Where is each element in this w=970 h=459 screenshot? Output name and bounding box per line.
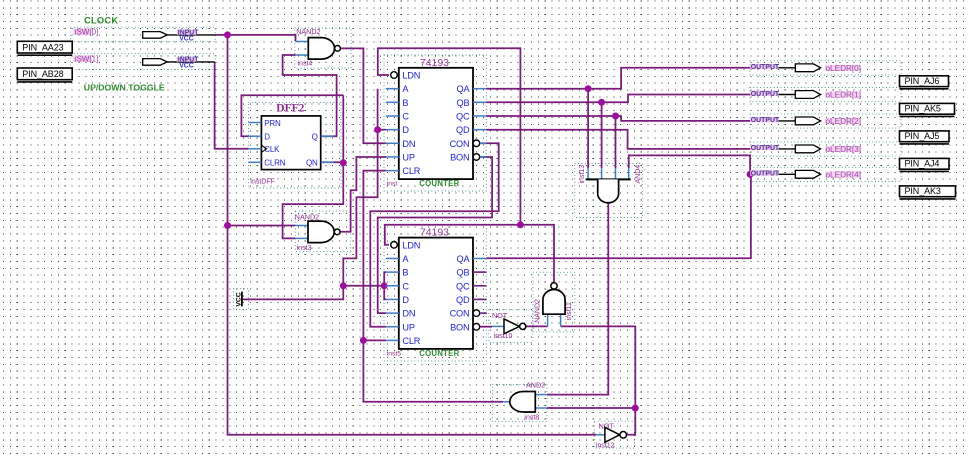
wire counter inst QA to output oLEDR[0] — [486, 68, 750, 89]
svg-text:DN: DN — [402, 139, 415, 149]
svg-text:oLEDR[4]: oLEDR[4] — [826, 170, 862, 179]
output pin oLEDR[3] — [750, 145, 861, 154]
comment text UP/DOWN TOGGLE — [84, 83, 165, 93]
svg-text:DFF2: DFF2 — [276, 103, 304, 115]
svg-text:PIN_AB28: PIN_AB28 — [22, 69, 63, 79]
wire counter inst QC to output oLEDR[2] — [486, 116, 750, 121]
svg-text:BON: BON — [450, 152, 469, 162]
junction LDN net — [517, 221, 524, 228]
wire VCC net: counter inst A/D down to VCC symbol — [242, 89, 378, 300]
wire CLOCK net: vertical trunk down left side to NOT inst12 input — [228, 35, 597, 435]
svg-text:COUNTER: COUNTER — [419, 349, 459, 358]
wire NAND2 inst3 output to counter inst UP — [338, 157, 386, 232]
svg-text:OUTPUT: OUTPUT — [751, 64, 780, 71]
junction VCC net at counter inst5 C stub — [381, 282, 388, 289]
svg-text:NOT: NOT — [492, 311, 508, 320]
counter 74193 inst — [386, 58, 487, 188]
svg-text:D: D — [402, 125, 409, 135]
junction QB net — [598, 99, 605, 106]
svg-text:DN: DN — [402, 309, 415, 319]
wire counter inst BON to counter inst5 DN — [378, 157, 492, 313]
svg-text:UP: UP — [402, 152, 414, 162]
junction NOT inst12 output node — [632, 405, 639, 412]
svg-text:inst13: inst13 — [579, 165, 586, 184]
svg-text:VCC: VCC — [179, 36, 194, 43]
d flip-flop DFF2 instDFF — [248, 103, 333, 186]
wire NOT inst12 output up to NAND2 inst11 input 2 — [561, 326, 636, 434]
svg-text:PIN_AJ5: PIN_AJ5 — [905, 131, 940, 141]
svg-text:C: C — [402, 281, 409, 291]
wire iSW[1] to DFF CLK — [215, 62, 249, 149]
wire CLOCK net: pin lead to junction, to NAND2 inst4 top input — [215, 35, 296, 42]
svg-text:oLEDR[3]: oLEDR[3] — [826, 145, 862, 154]
selection box NOT inst10 — [489, 310, 533, 343]
junction VCC net at dot1 — [340, 282, 347, 289]
wire NOT inst10 output to NAND2 inst11 input 1 — [526, 325, 548, 327]
selection box DFF instDFF — [249, 103, 342, 189]
wire AND4 output down to AND2 inst8 input 1 — [547, 203, 608, 395]
svg-text:oLEDR[2]: oLEDR[2] — [826, 117, 862, 126]
wire counter inst5 BON to NOT inst10 input (overdraw) — [480, 326, 492, 328]
selection box NAND2 inst4 — [295, 28, 351, 68]
svg-text:QA: QA — [457, 84, 471, 94]
wire counter inst QD to output oLEDR[3] — [486, 130, 750, 149]
svg-text:oLEDR[0]: oLEDR[0] — [826, 64, 862, 73]
svg-text:B: B — [402, 98, 408, 108]
svg-text:inst11: inst11 — [566, 302, 573, 320]
counter 74193 inst5 — [386, 228, 487, 358]
svg-text:LDN: LDN — [402, 71, 420, 81]
svg-text:oLEDR[1]: oLEDR[1] — [826, 91, 862, 100]
svg-text:CLK: CLK — [264, 145, 280, 154]
wire DFF QN trunk to NAND2 inst3 lower input — [283, 95, 344, 238]
svg-text:VCC: VCC — [179, 63, 194, 70]
selection box output pin oLEDR[1] — [750, 88, 901, 102]
wire CLOCK net: branch to NAND2 inst3 top input — [228, 225, 296, 227]
pin location box PIN_AB28 — [17, 68, 72, 82]
and gate AND2 inst8 (mirrored left) — [503, 380, 547, 421]
nand gate NAND2 inst11 (rotated up) — [535, 283, 573, 327]
selection box NAND2 inst3 — [295, 211, 350, 251]
wire QA2 branch jog to AND4 input 4 — [629, 155, 750, 174]
svg-text:CON: CON — [450, 139, 470, 149]
svg-text:QB: QB — [457, 98, 470, 108]
and gate AND4 inst13 (rotated down) — [579, 165, 642, 203]
svg-text:Q: Q — [312, 133, 318, 142]
wire LDN net: NAND2 inst11 output up and across to LDN pins — [385, 225, 554, 283]
svg-text:OUTPUT: OUTPUT — [751, 117, 780, 124]
input pin iSW[1] (UP/DOWN TOGGLE) — [74, 55, 215, 70]
selection box NAND2 inst11 — [533, 272, 575, 332]
svg-text:PRN: PRN — [264, 119, 281, 128]
wire QC branch down to AND4 input 3 — [615, 116, 617, 168]
selection box output pin oLEDR[3] — [750, 142, 901, 156]
svg-text:CLR: CLR — [402, 336, 420, 346]
comment text CLOCK — [84, 16, 118, 26]
svg-text:iSW[0]: iSW[0] — [75, 28, 99, 37]
selection box NOT inst12 — [594, 421, 634, 448]
junction CLR net at counter inst5 CLR — [360, 337, 367, 344]
svg-text:inst: inst — [387, 181, 398, 188]
junction QA net — [585, 85, 592, 92]
wire counter inst QB to output oLEDR[1] — [486, 95, 750, 103]
svg-text:PIN_AA23: PIN_AA23 — [22, 42, 63, 52]
selection box VCC constant — [234, 289, 249, 310]
svg-text:QC: QC — [456, 111, 470, 121]
junction DFF QN node — [340, 159, 347, 166]
input pin iSW[0] (CLOCK) — [74, 28, 216, 43]
selection box AND2 inst8 — [492, 385, 547, 422]
svg-text:QA: QA — [457, 254, 471, 264]
svg-text:inst8: inst8 — [524, 415, 539, 422]
wire DFF QN to D feedback — [241, 95, 343, 136]
nand gate NAND2 inst3 — [295, 212, 340, 252]
not gate NOT inst12 — [596, 421, 627, 449]
pin location box PIN_AK5 — [900, 103, 955, 116]
junction VCC net at counter inst D — [374, 126, 381, 133]
wire VCC net: branch to counter inst5 C — [343, 285, 384, 287]
svg-text:inst10: inst10 — [494, 333, 513, 340]
svg-text:CLR: CLR — [402, 166, 420, 176]
svg-text:D: D — [402, 295, 409, 305]
svg-text:OUTPUT: OUTPUT — [751, 91, 780, 98]
svg-text:NAND2: NAND2 — [295, 212, 319, 221]
wire DFF Q to NAND2 inst4 lower input — [283, 55, 337, 136]
svg-text:inst4: inst4 — [298, 61, 313, 68]
selection box 74193 counter inst — [384, 55, 486, 191]
wire VCC net: branch to counter inst D — [378, 129, 386, 131]
selection box AND4 inst13 — [575, 164, 643, 218]
svg-text:inst5: inst5 — [387, 350, 402, 357]
junction QC net — [612, 113, 619, 120]
wire CLR net: AND2 inst8 output up to counter inst CLR — [363, 171, 503, 402]
wire counter inst5 QA to output oLEDR[4] — [486, 174, 751, 258]
svg-text:iSW[1]: iSW[1] — [75, 55, 99, 64]
svg-text:C: C — [402, 111, 409, 121]
output pin oLEDR[4] — [750, 170, 861, 179]
svg-text:inst12: inst12 — [596, 442, 615, 449]
svg-text:UP/DOWN TOGGLE: UP/DOWN TOGGLE — [84, 83, 165, 93]
svg-text:PIN_AJ4: PIN_AJ4 — [905, 159, 940, 169]
svg-text:QN: QN — [306, 159, 318, 168]
power symbol VCC — [235, 292, 242, 307]
pin location box PIN_AK3 — [900, 186, 956, 199]
wire AND2 inst8 input 2 to NOT inst12 output node — [547, 407, 635, 409]
junction CLOCK net at iSW[0] lead — [224, 31, 231, 38]
svg-text:QD: QD — [456, 295, 470, 305]
svg-text:instDFF: instDFF — [250, 178, 275, 185]
svg-text:AND4: AND4 — [635, 165, 642, 184]
wire QB branch down to AND4 input 2 — [601, 102, 603, 168]
svg-text:PIN_AK5: PIN_AK5 — [905, 104, 941, 114]
selection box input pin iSW[1] — [70, 54, 215, 70]
wire VCC net: counter inst5 B and D ties — [384, 272, 386, 299]
svg-text:CLOCK: CLOCK — [84, 16, 118, 26]
svg-text:CON: CON — [450, 309, 470, 319]
svg-text:PIN_AK3: PIN_AK3 — [905, 186, 941, 196]
wire counter inst5 BON to NOT inst10 input — [480, 326, 492, 328]
svg-text:NAND2: NAND2 — [535, 299, 542, 323]
selection box output pin oLEDR[2] — [750, 114, 901, 128]
svg-text:AND2: AND2 — [526, 380, 545, 389]
output pin oLEDR[1] — [750, 91, 861, 100]
junction QA2 net at output row — [747, 171, 754, 178]
pin location box PIN_AJ4 — [900, 158, 950, 171]
svg-text:OUTPUT: OUTPUT — [751, 171, 780, 178]
wire QA branch down to AND4 input 1 — [587, 89, 589, 168]
pin location box PIN_AA23 — [17, 41, 72, 55]
svg-text:QB: QB — [457, 268, 470, 278]
svg-text:COUNTER: COUNTER — [419, 179, 459, 188]
selection box input pin iSW[0] — [70, 27, 215, 41]
wire dangling at counter inst5 QC — [473, 285, 487, 287]
svg-text:CLRN: CLRN — [264, 159, 285, 168]
wire LDN net: riser to counter inst LDN — [378, 48, 521, 225]
svg-text:QC: QC — [456, 281, 470, 291]
pin location box PIN_AJ5 — [900, 131, 950, 144]
wire CLR net: branch to counter inst5 CLR — [363, 339, 386, 341]
selection box 74193 counter inst5 — [384, 225, 486, 361]
output pin oLEDR[0] — [750, 64, 861, 73]
svg-text:UP: UP — [402, 322, 414, 332]
selection box output pin oLEDR[0] — [750, 61, 901, 75]
wire dangling at counter inst5 CON — [480, 312, 486, 314]
junction CLOCK net at NAND2 inst3 branch — [224, 222, 231, 229]
output pin oLEDR[2] — [750, 117, 861, 126]
svg-text:OUTPUT: OUTPUT — [751, 145, 780, 152]
selection box output pin oLEDR[4] — [750, 167, 901, 181]
nand gate NAND2 inst4 — [296, 27, 341, 68]
svg-text:VCC: VCC — [235, 292, 242, 306]
svg-text:QD: QD — [456, 125, 470, 135]
svg-text:LDN: LDN — [402, 240, 420, 250]
svg-text:PIN_AJ6: PIN_AJ6 — [905, 76, 940, 86]
svg-text:NAND2: NAND2 — [296, 27, 320, 36]
not gate NOT inst10 — [492, 311, 526, 340]
pin location box PIN_AJ6 — [900, 76, 949, 89]
svg-text:D: D — [264, 133, 270, 142]
wire dangling at counter inst5 QD — [473, 298, 487, 300]
svg-text:B: B — [402, 268, 408, 278]
wire NAND2 inst4 output to counter inst DN — [340, 48, 386, 143]
wire dangling at counter inst5 QB — [473, 271, 487, 273]
svg-text:BON: BON — [450, 322, 469, 332]
svg-text:inst3: inst3 — [297, 245, 312, 252]
wire counter inst CON to counter inst5 UP — [370, 143, 498, 326]
